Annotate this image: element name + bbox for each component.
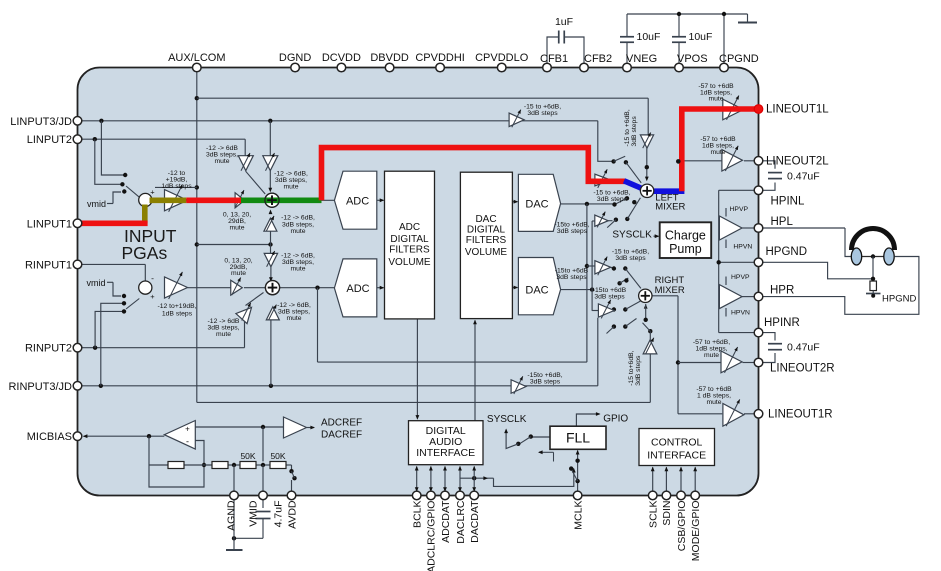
svg-text:mute: mute xyxy=(704,352,719,359)
svg-text:mute: mute xyxy=(214,158,229,165)
svg-text:BCLK: BCLK xyxy=(412,501,424,528)
svg-text:+: + xyxy=(185,425,190,434)
svg-text:ADCLRC/GPIO: ADCLRC/GPIO xyxy=(426,501,438,571)
svg-text:RINPUT3/JD: RINPUT3/JD xyxy=(8,381,72,393)
svg-text:Charge: Charge xyxy=(665,229,706,243)
svg-text:INTERFACE: INTERFACE xyxy=(416,447,475,459)
svg-text:DCVDD: DCVDD xyxy=(322,52,361,64)
svg-text:mute: mute xyxy=(708,95,723,102)
svg-text:1uF: 1uF xyxy=(555,16,573,28)
svg-text:1dB steps: 1dB steps xyxy=(162,311,193,318)
svg-text:mute: mute xyxy=(231,270,246,277)
svg-text:FLL: FLL xyxy=(566,430,590,446)
svg-text:4.7uF: 4.7uF xyxy=(273,501,285,528)
svg-text:MCLK: MCLK xyxy=(572,501,584,530)
svg-text:SYSCLK: SYSCLK xyxy=(612,230,652,241)
svg-text:LINEOUT2L: LINEOUT2L xyxy=(766,156,829,168)
svg-text:3dB steps: 3dB steps xyxy=(527,110,558,117)
svg-text:0.47uF: 0.47uF xyxy=(787,171,820,183)
svg-text:HPL: HPL xyxy=(771,216,794,228)
svg-text:HPVP: HPVP xyxy=(731,274,750,281)
svg-text:CFB2: CFB2 xyxy=(584,53,612,65)
svg-text:MODE/GPIO: MODE/GPIO xyxy=(690,501,702,562)
svg-text:+: + xyxy=(150,292,155,301)
svg-text:HPGND: HPGND xyxy=(882,294,916,305)
svg-text:vmid: vmid xyxy=(87,199,106,209)
svg-text:PGAs: PGAs xyxy=(122,243,168,263)
svg-text:AGND: AGND xyxy=(226,500,238,531)
svg-text:AVDD: AVDD xyxy=(286,500,298,529)
svg-text:HPINR: HPINR xyxy=(764,317,800,329)
svg-text:3dB steps: 3dB steps xyxy=(530,379,561,386)
svg-text:-15 to +6dB,: -15 to +6dB, xyxy=(624,109,631,146)
svg-text:INTERFACE: INTERFACE xyxy=(647,450,706,462)
svg-text:mute: mute xyxy=(216,331,231,338)
svg-text:SDIN: SDIN xyxy=(661,501,673,526)
svg-text:10uF: 10uF xyxy=(689,31,713,43)
svg-text:mute: mute xyxy=(229,225,244,232)
svg-text:-: - xyxy=(151,273,154,283)
svg-text:SCLK: SCLK xyxy=(648,501,660,528)
svg-text:CPGND: CPGND xyxy=(719,53,759,65)
svg-text:3dB steps: 3dB steps xyxy=(615,255,646,262)
svg-text:vmid: vmid xyxy=(86,278,105,288)
svg-text:-: - xyxy=(186,437,189,447)
svg-text:AUX/LCOM: AUX/LCOM xyxy=(168,52,225,64)
svg-text:50K: 50K xyxy=(240,451,255,461)
svg-text:3dB steps: 3dB steps xyxy=(631,116,638,147)
svg-text:CPVDDLO: CPVDDLO xyxy=(475,52,529,64)
svg-text:3dB steps: 3dB steps xyxy=(556,274,587,281)
svg-text:+: + xyxy=(150,188,155,197)
svg-text:mute: mute xyxy=(710,149,725,156)
svg-text:LINEOUT1L: LINEOUT1L xyxy=(766,104,829,116)
svg-text:3dB steps: 3dB steps xyxy=(594,294,625,301)
svg-text:MIXER: MIXER xyxy=(655,202,685,213)
svg-text:DGND: DGND xyxy=(279,52,311,64)
svg-text:HPGND: HPGND xyxy=(766,246,808,258)
svg-text:3dB steps: 3dB steps xyxy=(635,355,642,386)
svg-text:DACLRC: DACLRC xyxy=(455,500,467,544)
svg-text:LINEOUT1R: LINEOUT1R xyxy=(768,409,833,421)
svg-text:mute: mute xyxy=(706,399,721,406)
svg-text:DIGITAL: DIGITAL xyxy=(390,234,429,245)
svg-text:DAC: DAC xyxy=(475,214,496,225)
svg-text:50K: 50K xyxy=(270,451,285,461)
svg-text:mute: mute xyxy=(290,266,305,273)
svg-text:DACREF: DACREF xyxy=(321,430,362,441)
svg-text:MICBIAS: MICBIAS xyxy=(27,431,72,443)
svg-text:LINPUT1: LINPUT1 xyxy=(27,218,72,230)
svg-text:GPIO: GPIO xyxy=(603,414,628,425)
svg-text:DIGITAL: DIGITAL xyxy=(467,225,506,236)
svg-text:DAC: DAC xyxy=(525,199,548,211)
svg-text:0.47uF: 0.47uF xyxy=(787,342,820,354)
svg-text:VOLUME: VOLUME xyxy=(388,257,431,268)
svg-text:ADC: ADC xyxy=(346,195,369,207)
svg-text:LINPUT3/JD: LINPUT3/JD xyxy=(10,116,72,128)
svg-text:ADC: ADC xyxy=(346,283,369,295)
svg-text:SYSCLK: SYSCLK xyxy=(487,414,527,425)
svg-text:DACDAT: DACDAT xyxy=(469,500,481,543)
svg-text:CONTROL: CONTROL xyxy=(651,437,702,449)
svg-text:VNEG: VNEG xyxy=(626,53,657,65)
svg-text:VPOS: VPOS xyxy=(677,53,708,65)
svg-text:3dB steps: 3dB steps xyxy=(597,196,628,203)
svg-text:10uF: 10uF xyxy=(637,31,661,43)
svg-text:3dB steps: 3dB steps xyxy=(557,228,588,235)
svg-text:RINPUT1: RINPUT1 xyxy=(25,259,72,271)
svg-text:-15 to+6dB,: -15 to+6dB, xyxy=(628,350,635,385)
svg-text:DBVDD: DBVDD xyxy=(370,52,409,64)
svg-text:mute: mute xyxy=(283,184,298,191)
svg-text:Pump: Pump xyxy=(669,242,702,256)
svg-text:VOLUME: VOLUME xyxy=(465,247,508,258)
svg-text:LINEOUT2R: LINEOUT2R xyxy=(770,363,835,375)
svg-text:HPVP: HPVP xyxy=(730,206,749,213)
svg-text:RINPUT2: RINPUT2 xyxy=(25,343,72,355)
svg-text:1dB steps: 1dB steps xyxy=(161,183,192,190)
svg-text:-12 to+19dB,: -12 to+19dB, xyxy=(157,303,196,310)
svg-text:DAC: DAC xyxy=(525,285,548,297)
svg-text:ADCDAT: ADCDAT xyxy=(440,500,452,543)
svg-text:HPVN: HPVN xyxy=(731,310,750,317)
svg-text:VMID: VMID xyxy=(248,500,260,527)
svg-text:mute: mute xyxy=(290,228,305,235)
svg-text:MIXER: MIXER xyxy=(655,285,685,296)
svg-text:ADC: ADC xyxy=(399,222,420,233)
svg-text:FILTERS: FILTERS xyxy=(466,235,507,246)
svg-text:CPVDDHI: CPVDDHI xyxy=(415,52,465,64)
svg-text:ADCREF: ADCREF xyxy=(321,418,362,429)
svg-text:CSB/GPIO: CSB/GPIO xyxy=(676,501,688,552)
svg-text:LINPUT2: LINPUT2 xyxy=(27,134,72,146)
svg-text:mute: mute xyxy=(286,315,301,322)
svg-text:CFB1: CFB1 xyxy=(540,53,568,65)
svg-text:FILTERS: FILTERS xyxy=(389,245,430,256)
svg-text:HPR: HPR xyxy=(770,285,794,297)
svg-text:HPVN: HPVN xyxy=(733,244,752,251)
svg-text:HPINL: HPINL xyxy=(771,196,805,208)
